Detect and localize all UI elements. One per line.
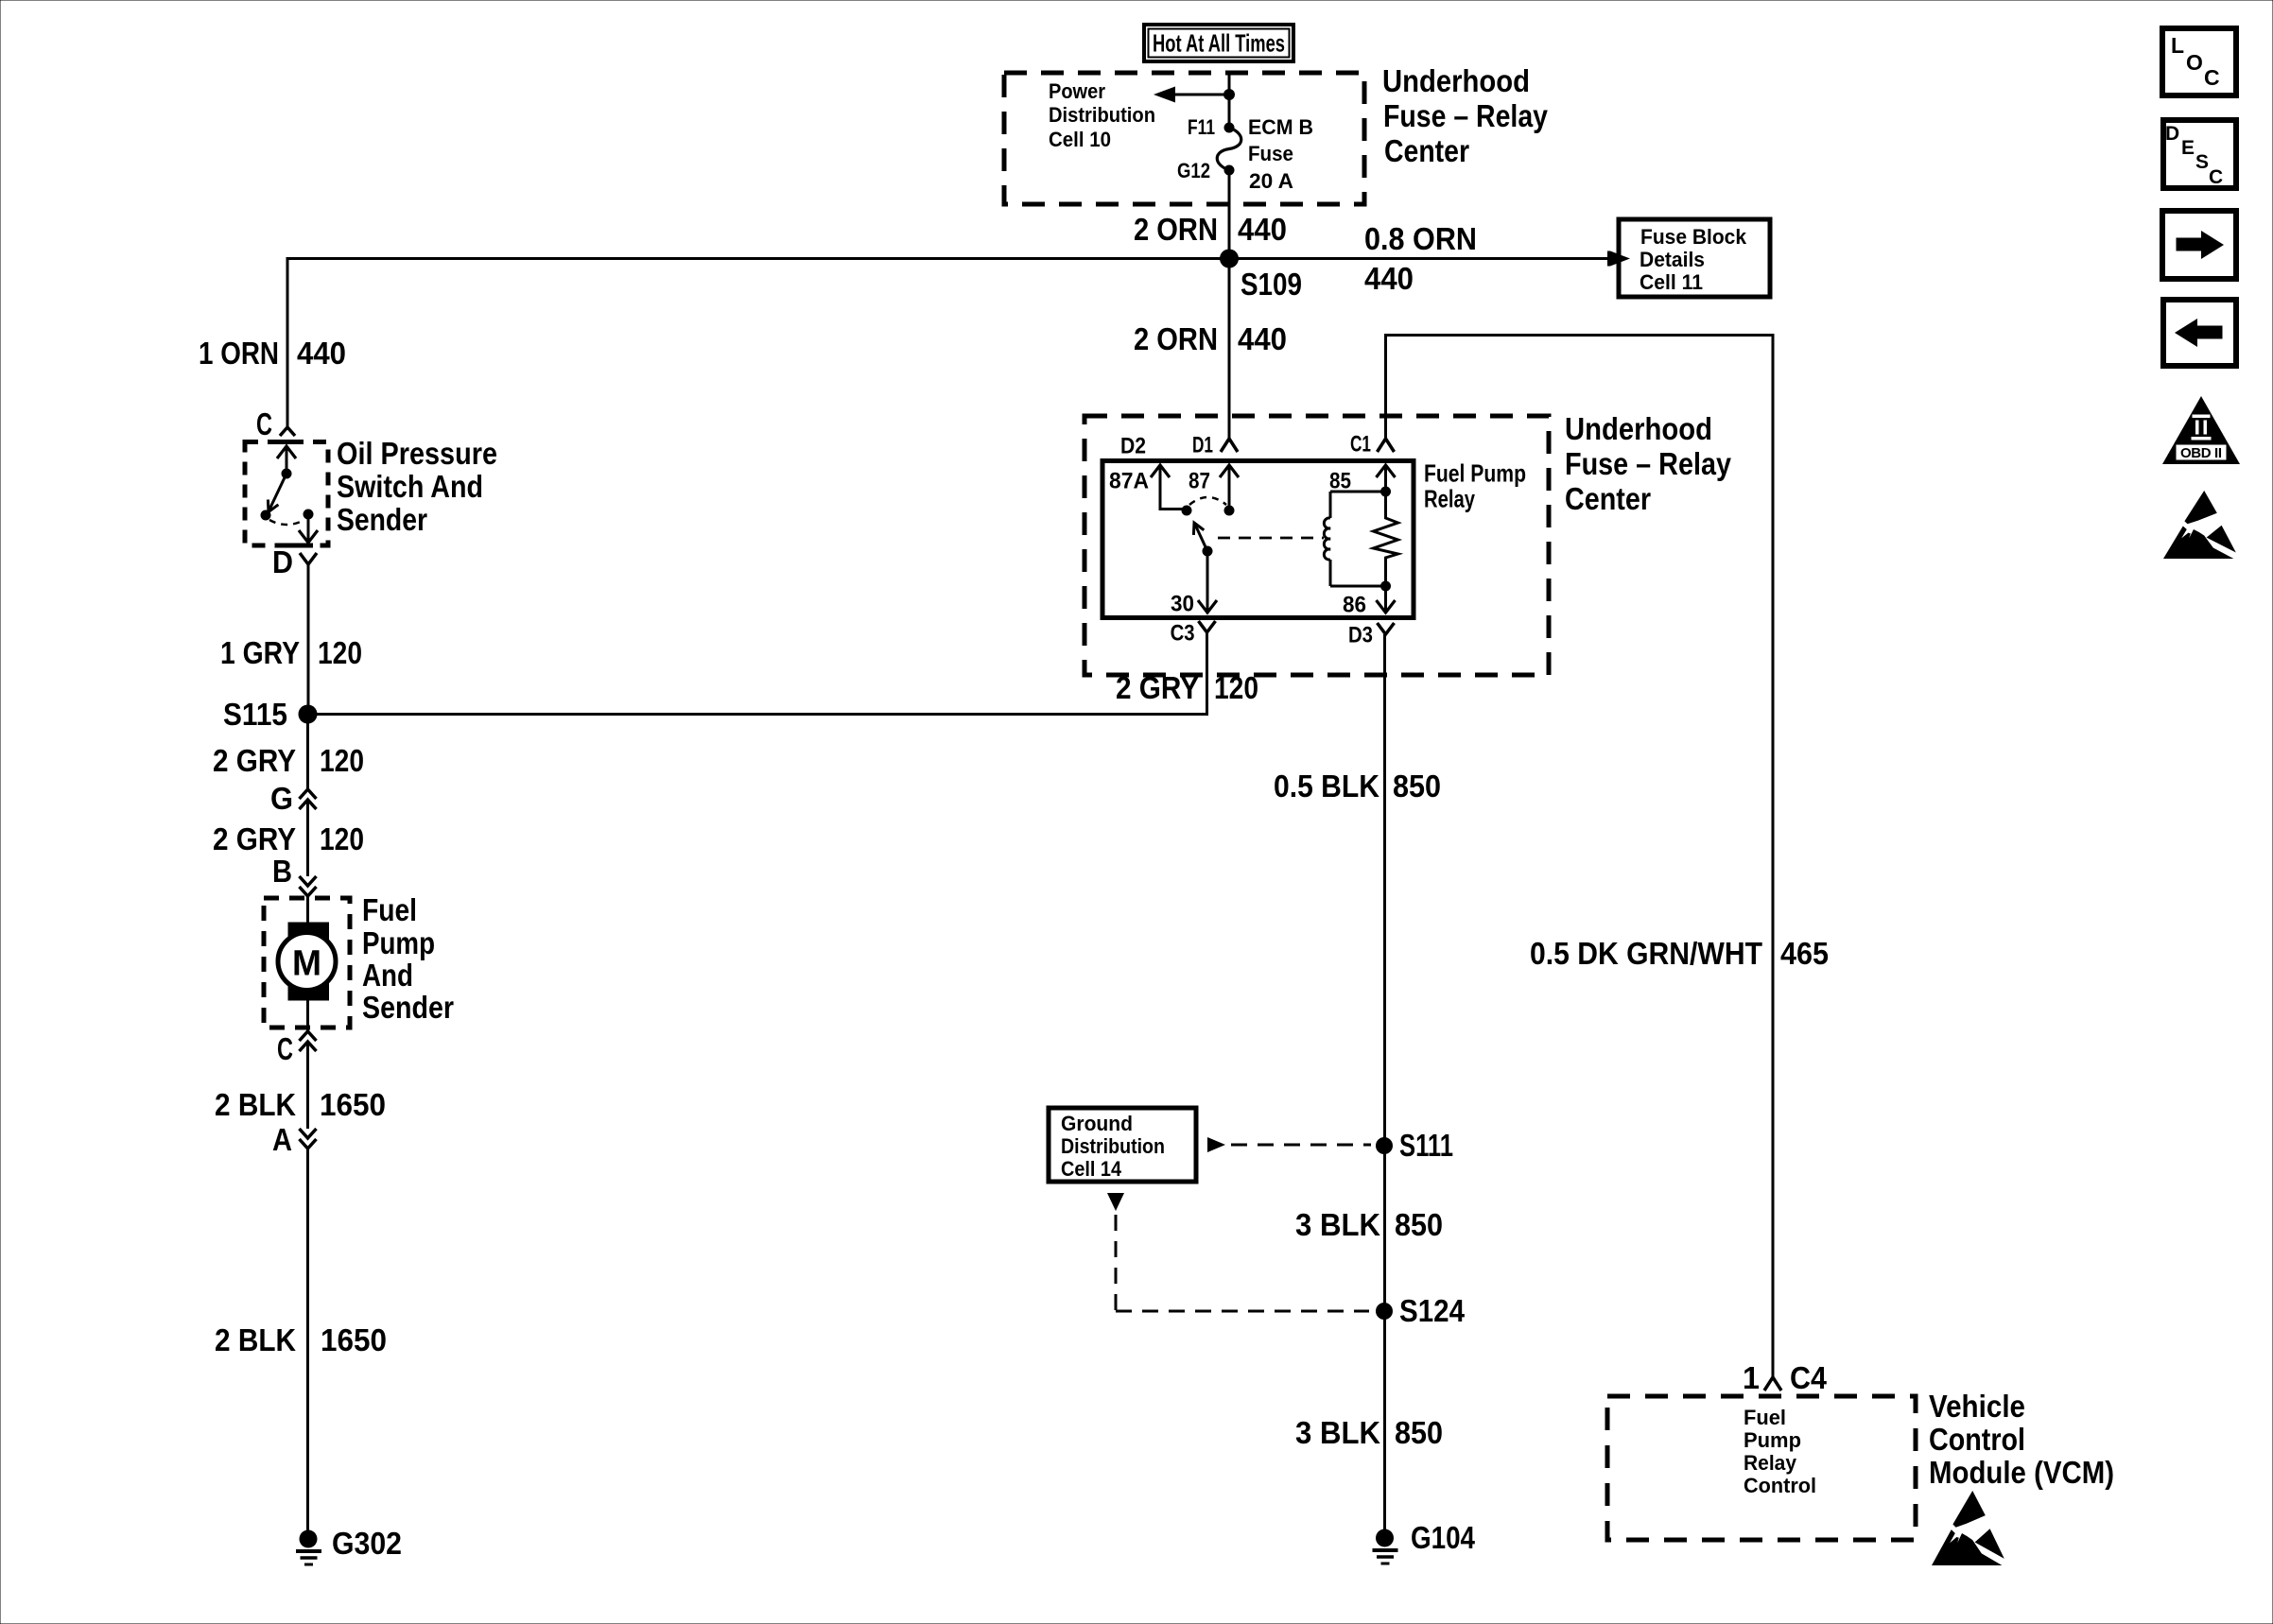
svg-text:465: 465 [1780, 936, 1829, 971]
svg-text:S109: S109 [1241, 267, 1302, 302]
label S109 [1241, 267, 1302, 302]
oil pressure switch contacts [261, 446, 319, 543]
label S115 [223, 697, 287, 732]
underhood fuse-relay center box (top, dashed) [1004, 73, 1364, 204]
reference box Fuse Block Details Cell 11 [1619, 219, 1770, 297]
svg-text:0.8 ORN: 0.8 ORN [1364, 221, 1477, 256]
svg-text:D2: D2 [1120, 433, 1146, 458]
svg-text:Control: Control [1744, 1474, 1816, 1497]
wire label 2 GRY 120 (at C3 riser) [1116, 670, 1258, 705]
relay pin 85 [1329, 465, 1396, 493]
svg-text:B: B [272, 854, 292, 889]
cavity label D3 [1348, 622, 1373, 648]
label Fuel Pump Relay [1424, 459, 1526, 513]
wire label 2 GRY 120 (below G) [213, 821, 364, 856]
wire label 1 GRY 120 [220, 635, 362, 670]
label Fuel Pump Relay Control [1744, 1406, 1816, 1497]
svg-text:Cell 11: Cell 11 [1640, 270, 1703, 294]
svg-text:And: And [362, 958, 413, 993]
svg-text:440: 440 [1238, 321, 1287, 356]
svg-text:2 ORN: 2 ORN [1134, 321, 1218, 356]
svg-text:2 GRY: 2 GRY [213, 821, 296, 856]
arrow + dashed link to S111 [1207, 1137, 1371, 1152]
relay mechanical link (dashed) [1218, 537, 1324, 540]
svg-text:O: O [2186, 50, 2203, 75]
node: junction to power distribution [1223, 89, 1235, 100]
svg-text:Fuel: Fuel [362, 892, 417, 927]
svg-text:OBD II: OBD II [2180, 445, 2222, 461]
icon back arrow [2163, 300, 2236, 366]
wire: switch pin D down to S115 [307, 564, 310, 715]
svg-text:2 ORN: 2 ORN [1134, 212, 1218, 247]
ESD symbol (VCM) [1932, 1491, 2004, 1565]
pin label C (oil pressure switch) [256, 406, 272, 441]
svg-text:Center: Center [1384, 133, 1469, 168]
svg-text:Cell 14: Cell 14 [1061, 1157, 1122, 1181]
power label box "Hot At All Times" [1144, 25, 1293, 61]
vehicle control module box (dashed) [1607, 1396, 1916, 1540]
svg-text:Pump: Pump [1744, 1428, 1801, 1452]
svg-text:Control: Control [1929, 1422, 2025, 1457]
wire: fuse output down to S109 [1228, 170, 1231, 259]
label S124 [1399, 1293, 1466, 1328]
svg-text:120: 120 [320, 743, 364, 778]
svg-text:120: 120 [320, 821, 364, 856]
svg-text:S111: S111 [1399, 1128, 1453, 1163]
svg-text:1650: 1650 [321, 1322, 387, 1357]
svg-text:M: M [292, 943, 321, 983]
wire: A down to ground G302 [306, 1149, 309, 1539]
svg-text:Hot At All Times: Hot At All Times [1153, 29, 1285, 58]
pin label C (fuel pump) [277, 1031, 293, 1066]
svg-text:Details: Details [1640, 248, 1705, 271]
connector C3 [1199, 621, 1216, 632]
svg-text:Relay: Relay [1424, 485, 1475, 513]
svg-text:C1: C1 [1350, 431, 1371, 457]
oil pressure switch box (dashed) [245, 442, 328, 546]
wire: arrow to Power Distribution Cell 10 [1154, 87, 1229, 103]
cavity label D2 [1120, 433, 1146, 458]
connector C (oil pressure switch) [280, 427, 295, 436]
svg-text:D3: D3 [1348, 622, 1373, 648]
svg-text:S115: S115 [223, 697, 287, 732]
svg-text:Center: Center [1565, 481, 1651, 516]
svg-text:850: 850 [1395, 1207, 1443, 1242]
svg-text:Fuel Pump: Fuel Pump [1424, 459, 1526, 488]
svg-text:3 BLK: 3 BLK [1295, 1415, 1380, 1450]
svg-text:Sender: Sender [337, 502, 427, 537]
svg-text:2 GRY: 2 GRY [213, 743, 296, 778]
svg-text:87: 87 [1189, 468, 1210, 493]
svg-text:Underhood: Underhood [1382, 63, 1530, 98]
svg-text:Pump: Pump [362, 925, 435, 960]
svg-text:E: E [2181, 137, 2195, 159]
wire: S115 down to fuel pump [306, 715, 309, 790]
svg-text:0.5 BLK: 0.5 BLK [1274, 769, 1379, 803]
cavity label D1 [1192, 432, 1213, 458]
wire: bus down to oil pressure switch pin C [286, 257, 289, 427]
connector D3 [1378, 623, 1395, 634]
wire: S109 down to relay pin D1 [1228, 259, 1231, 439]
splice S124 [1376, 1303, 1393, 1320]
cavity label C3 [1171, 620, 1195, 646]
svg-text:85: 85 [1329, 468, 1351, 493]
label Underhood Fuse-Relay Center (top) [1382, 63, 1549, 168]
svg-text:86: 86 [1343, 592, 1366, 617]
svg-text:0.5 DK GRN/WHT: 0.5 DK GRN/WHT [1530, 936, 1762, 971]
svg-text:Fuse – Relay: Fuse – Relay [1565, 446, 1732, 481]
svg-text:G12: G12 [1177, 159, 1210, 182]
svg-text:30: 30 [1171, 591, 1194, 616]
svg-text:Fuse: Fuse [1248, 142, 1293, 165]
svg-text:2 BLK: 2 BLK [215, 1322, 296, 1357]
wire: S115 horizontal run to relay pin C3 [308, 632, 1209, 716]
label Fuel Pump And Sender [362, 892, 454, 1025]
pin label A [272, 1122, 292, 1157]
svg-text:440: 440 [1364, 261, 1414, 296]
label G302 [332, 1526, 402, 1561]
wire: B into fuel pump box [306, 896, 309, 924]
svg-text:ECM B: ECM B [1248, 115, 1313, 139]
connector D1 [1221, 439, 1238, 452]
wire: C1 riser and top run to VCM drop [1384, 334, 1775, 1377]
arrowhead to Fuse Block Details [1607, 251, 1630, 267]
wire: relay D3 down to S111 [1383, 634, 1386, 1538]
svg-text:Switch And: Switch And [337, 469, 483, 504]
wire label 2 GRY 120 (above G) [213, 743, 364, 778]
wire label 3 BLK 850 (lower) [1295, 1415, 1443, 1450]
wire: G to B [306, 800, 309, 876]
svg-text:Fuel: Fuel [1744, 1406, 1786, 1429]
svg-text:C: C [256, 406, 272, 441]
svg-text:850: 850 [1393, 769, 1441, 803]
wire label 2 ORN 440 (below S109) [1134, 321, 1287, 356]
icon LOC [2162, 28, 2236, 95]
label Underhood Fuse-Relay Center (middle) [1565, 411, 1732, 516]
svg-text:Underhood: Underhood [1565, 411, 1712, 446]
relay switch contacts [1182, 497, 1235, 557]
connector D (oil pressure switch) [300, 553, 317, 564]
label Oil Pressure Switch And Sender [337, 436, 497, 537]
icon OBD II triangle [2162, 396, 2240, 464]
svg-text:D: D [272, 544, 293, 579]
svg-text:C4: C4 [1790, 1360, 1828, 1395]
svg-text:1650: 1650 [320, 1087, 386, 1122]
svg-text:S: S [2195, 151, 2209, 173]
svg-text:L: L [2171, 33, 2184, 58]
svg-text:440: 440 [1238, 212, 1287, 247]
connector C1 [1378, 439, 1395, 452]
label Power Distribution Cell 10 [1049, 79, 1155, 151]
pin label B [272, 854, 292, 889]
svg-text:2 BLK: 2 BLK [215, 1087, 296, 1122]
svg-text:Module (VCM): Module (VCM) [1929, 1455, 2114, 1490]
splice S111 [1376, 1137, 1393, 1154]
svg-text:440: 440 [297, 336, 346, 371]
icon DESC [2163, 120, 2236, 188]
svg-text:1: 1 [1743, 1360, 1760, 1395]
label C4 [1790, 1360, 1828, 1395]
icon forward arrow [2162, 211, 2236, 279]
fuel pump relay box [1102, 461, 1414, 618]
svg-text:1 ORN: 1 ORN [199, 336, 279, 371]
fuel pump box (dashed) [264, 898, 350, 1028]
wire label 2 BLK 1650 (lower) [215, 1322, 387, 1357]
pin label G [270, 781, 293, 816]
ground G302 [296, 1530, 321, 1565]
svg-text:850: 850 [1395, 1415, 1443, 1450]
svg-text:Distribution: Distribution [1061, 1134, 1165, 1158]
inline connector C (fuel pump) [300, 1031, 317, 1051]
connector C4 [1764, 1377, 1781, 1391]
wire: motor to box bottom [306, 1000, 309, 1031]
wire: battery feed into fuse box [1228, 73, 1231, 128]
svg-text:C: C [2209, 166, 2223, 188]
svg-text:C3: C3 [1171, 620, 1195, 646]
cavity label C1 [1350, 431, 1371, 457]
svg-text:G302: G302 [332, 1526, 402, 1561]
relay pin 87 [1189, 465, 1239, 510]
svg-text:Ground: Ground [1061, 1112, 1133, 1135]
svg-text:87A: 87A [1109, 468, 1149, 493]
svg-text:F11: F11 [1188, 115, 1215, 139]
pin label 1 (VCM) [1743, 1360, 1760, 1395]
label G104 [1411, 1520, 1476, 1555]
svg-text:Oil Pressure: Oil Pressure [337, 436, 497, 471]
splice S109 [1220, 250, 1239, 268]
relay coil resistor [1374, 487, 1398, 592]
wire label 1 ORN 440 [199, 336, 346, 371]
wire label 3 BLK 850 (S111-S124) [1295, 1207, 1443, 1242]
label S111 [1399, 1128, 1453, 1163]
inline connector A [300, 1129, 317, 1149]
relay pin 30 [1171, 551, 1217, 616]
svg-text:S124: S124 [1399, 1293, 1466, 1328]
fuel pump motor M [278, 923, 336, 1000]
relay pin 87A [1109, 465, 1184, 510]
label Vehicle Control Module (VCM) [1929, 1389, 2114, 1490]
svg-text:C: C [277, 1031, 293, 1066]
wire label 0.5 DK GRN/WHT 465 [1530, 936, 1829, 971]
wire label 2 BLK 1650 (upper) [215, 1087, 386, 1122]
svg-text:Fuse Block: Fuse Block [1640, 225, 1747, 249]
svg-text:D1: D1 [1192, 432, 1213, 458]
svg-text:D: D [2165, 123, 2179, 145]
wire label 0.8 ORN 440 [1364, 221, 1477, 296]
inline connector B [300, 876, 317, 896]
svg-text:1 GRY: 1 GRY [220, 635, 300, 670]
relay coil [1324, 492, 1385, 586]
svg-text:Distribution: Distribution [1049, 103, 1155, 127]
svg-text:Relay: Relay [1744, 1451, 1797, 1475]
svg-text:Cell 10: Cell 10 [1049, 128, 1111, 151]
svg-text:Power: Power [1049, 79, 1105, 103]
svg-text:Vehicle: Vehicle [1929, 1389, 2025, 1424]
svg-text:3 BLK: 3 BLK [1295, 1207, 1380, 1242]
svg-text:20 A: 20 A [1249, 169, 1293, 193]
svg-text:G: G [270, 781, 293, 816]
splice S115 [299, 705, 318, 724]
reference box Ground Distribution Cell 14 [1049, 1108, 1196, 1182]
svg-text:120: 120 [318, 635, 362, 670]
wire: pump pin C down to A [306, 1042, 309, 1129]
label ECM B Fuse 20 A [1248, 115, 1313, 193]
svg-text:Fuse – Relay: Fuse – Relay [1383, 98, 1549, 133]
svg-text:C: C [2204, 65, 2220, 90]
ground G104 [1373, 1529, 1398, 1564]
wire label 0.5 BLK 850 [1274, 769, 1441, 803]
svg-text:Sender: Sender [362, 990, 454, 1025]
icon ESD triangle [2163, 491, 2236, 559]
svg-text:G104: G104 [1411, 1520, 1476, 1555]
relay pin 86 [1343, 586, 1396, 617]
svg-text:A: A [272, 1122, 292, 1157]
inline connector G [300, 789, 317, 809]
pin label D (oil pressure switch) [272, 544, 293, 579]
pin label F11 [1188, 115, 1215, 139]
wire label 2 ORN 440 (above S109) [1134, 212, 1287, 247]
wire: main horizontal bus at S109 [287, 257, 1607, 260]
underhood fuse-relay center box (middle, dashed) [1084, 416, 1549, 675]
fuse F11 ECM B Fuse 20 A [1217, 123, 1241, 176]
arrow + dashed link to S124 [1107, 1193, 1369, 1311]
pin label G12 [1177, 159, 1210, 182]
